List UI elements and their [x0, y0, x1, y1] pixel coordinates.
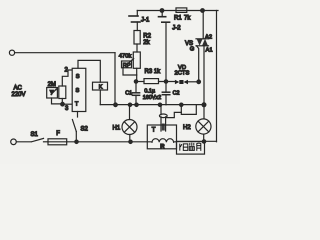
wire H2 bottom — [203, 134, 205, 141]
switch S1 — [32, 138, 44, 141]
svg-text:K: K — [99, 85, 103, 91]
wire H2 top — [203, 105, 205, 119]
svg-text:R3 1k: R3 1k — [145, 69, 162, 75]
svg-text:470k: 470k — [119, 54, 132, 60]
svg-text:2M: 2M — [48, 82, 56, 88]
probe wire left — [160, 105, 162, 115]
wire body bottom to node — [61, 99, 63, 105]
block U1 SST — [72, 68, 86, 111]
node H1 bottom — [129, 140, 132, 143]
svg-text:2k: 2k — [143, 40, 150, 46]
node H2 bottom — [202, 140, 205, 143]
resistor R3 — [144, 79, 159, 84]
gate rail — [136, 81, 144, 83]
svg-text:R2: R2 — [143, 34, 151, 40]
svg-text:S: S — [76, 74, 80, 80]
label text hengwenxiang — [180, 143, 201, 150]
node bus L — [114, 103, 118, 107]
wire right edge — [216, 11, 218, 142]
capacitor C2 — [165, 82, 167, 93]
relay contact J-2 — [161, 11, 163, 17]
svg-text:H2: H2 — [183, 125, 191, 131]
svg-text:G: G — [190, 46, 195, 52]
fuse F — [48, 139, 67, 145]
svg-text:H1: H1 — [113, 125, 121, 131]
heater coil R — [152, 139, 174, 143]
pot W arrow — [51, 89, 57, 95]
node A2 top — [201, 9, 205, 13]
wire wiper to node — [52, 98, 63, 104]
svg-text:2CTS: 2CTS — [175, 71, 190, 77]
terminal AC L — [9, 50, 14, 55]
wire VD to gate node — [188, 81, 199, 83]
svg-text:160Vx2: 160Vx2 — [143, 95, 161, 101]
svg-text:AC: AC — [14, 85, 23, 91]
svg-text:A2: A2 — [205, 34, 212, 40]
node probe right — [180, 103, 183, 106]
node gate — [197, 80, 201, 84]
pot RP body — [133, 52, 140, 68]
wire RP wiper tie — [123, 68, 137, 75]
node S2 bottom — [75, 140, 78, 143]
wire gate up — [197, 46, 199, 82]
node gate rail RP — [134, 80, 137, 83]
wire A1 down — [203, 46, 205, 105]
wire S1 to fuse — [44, 141, 49, 143]
triac VS — [202, 11, 204, 39]
pot RP wiper box — [122, 61, 132, 68]
svg-text:C1: C1 — [125, 91, 132, 97]
resistor R2 — [134, 31, 140, 45]
lamp H2 — [196, 119, 211, 134]
relay contact J-1 — [136, 11, 138, 17]
node probe left — [158, 103, 161, 106]
relay coil K — [93, 82, 108, 90]
sensor probe — [159, 114, 167, 118]
pot W body — [59, 86, 66, 99]
node triac A1 bus — [202, 103, 206, 107]
pot W glyph — [49, 90, 55, 96]
wire rail right segment — [177, 140, 217, 142]
wire pin2 chain — [62, 70, 71, 86]
svg-text:C2: C2 — [173, 91, 180, 97]
wire R3 to VD — [159, 81, 175, 83]
wire block top to K — [78, 60, 100, 82]
wire H1 bottom — [129, 135, 131, 142]
probe wire loop — [181, 105, 196, 114]
terminal AC N — [11, 139, 17, 145]
node pot 2M — [61, 102, 65, 106]
svg-text:S2: S2 — [81, 127, 89, 133]
lamp H1 — [122, 120, 137, 135]
svg-text:0.1µ: 0.1µ — [144, 89, 155, 95]
chamber box — [147, 125, 176, 149]
resistor R1 — [176, 8, 187, 12]
node H1 top — [128, 103, 131, 106]
svg-text:7k: 7k — [184, 16, 191, 22]
svg-text:T: T — [152, 128, 156, 134]
pot RP arrow — [126, 59, 134, 66]
wire node to pin3 — [63, 103, 72, 105]
svg-text:R1: R1 — [174, 16, 182, 22]
wire fuse to node — [67, 141, 148, 143]
node J2 top — [160, 9, 164, 13]
pot W 2M wiper box — [47, 88, 58, 99]
switch S2 — [77, 112, 79, 118]
capacitor C1 — [135, 82, 137, 93]
svg-text:T: T — [75, 102, 79, 108]
svg-text:F: F — [56, 131, 60, 137]
probe wire right — [167, 105, 182, 118]
wire L down to bus — [114, 53, 116, 105]
svg-text:S: S — [76, 88, 80, 94]
wire L top horizontal — [15, 52, 115, 54]
wire H1 top — [129, 105, 131, 120]
svg-text:220V: 220V — [12, 92, 26, 98]
wire RP to gate rail — [136, 68, 138, 81]
wire N to S1 — [16, 141, 31, 143]
svg-text:A1: A1 — [206, 47, 213, 53]
label box hengwenxiang — [177, 142, 205, 155]
node J2 bottom — [164, 80, 167, 83]
svg-text:S1: S1 — [31, 132, 39, 138]
wire R2 to RP — [136, 44, 138, 52]
bus main — [100, 104, 204, 106]
svg-text:J-2: J-2 — [172, 26, 181, 32]
wire top rail — [137, 10, 218, 12]
wire K to bus — [99, 90, 101, 105]
svg-text:J-1: J-1 — [141, 18, 150, 24]
diode VD — [175, 80, 179, 85]
svg-text:R: R — [160, 144, 165, 150]
node C1 bottom — [135, 103, 138, 106]
